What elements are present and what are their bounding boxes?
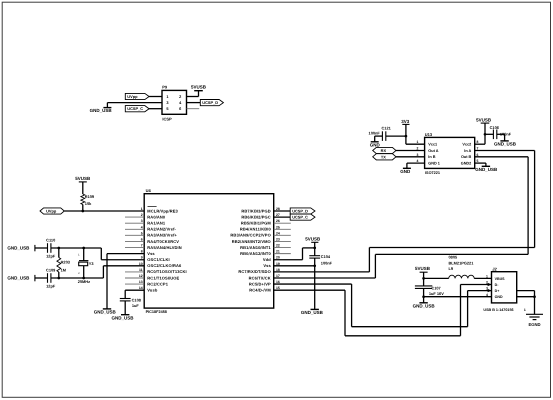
svg-text:C110: C110	[46, 237, 55, 242]
ground GND_USB (C108)	[111, 315, 134, 321]
svg-text:EGND: EGND	[528, 322, 540, 327]
wire P9 pin4	[187, 102, 201, 104]
svg-text:Out A: Out A	[428, 149, 438, 153]
ground GND (U13 pin4)	[400, 168, 411, 174]
svg-text:GND_USB: GND_USB	[413, 303, 436, 308]
svg-text:20MHz: 20MHz	[78, 279, 90, 284]
node VBUS junction	[422, 277, 425, 280]
svg-text:RC1/T1OSI/UOE: RC1/T1OSI/UOE	[147, 275, 179, 280]
node shield junction	[533, 295, 536, 298]
svg-text:UVpp: UVpp	[46, 208, 57, 213]
svg-text:GND: GND	[370, 142, 381, 147]
svg-text:USB B 1-1470156: USB B 1-1470156	[483, 308, 513, 312]
power 5VUSB (MCLR pull-up)	[75, 176, 91, 193]
svg-text:R109: R109	[85, 194, 95, 199]
wire U4 pin14 Vusb	[125, 289, 144, 291]
svg-text:TX: TX	[381, 154, 386, 159]
svg-text:1: 1	[141, 207, 143, 211]
wire U13 pin8	[475, 143, 485, 145]
svg-text:RC5/D+/VP: RC5/D+/VP	[249, 281, 271, 286]
svg-text:Out B: Out B	[461, 155, 472, 159]
wire U4 pin19 Vss	[274, 265, 315, 267]
connector J2 USB B	[483, 267, 516, 312]
svg-text:5VUSB: 5VUSB	[75, 176, 91, 181]
svg-text:RA5/AN4/HLVDIN: RA5/AN4/HLVDIN	[147, 245, 182, 250]
wire U4 pin28	[274, 210, 291, 212]
svg-text:1uF 16V: 1uF 16V	[429, 291, 444, 296]
ground GND_USB (U4 Vss)	[94, 309, 117, 315]
svg-text:Vss: Vss	[147, 251, 155, 256]
power 5VUSB (ICSP pin2)	[191, 85, 207, 97]
ground GND_USB (ICSP pin3)	[90, 103, 113, 114]
svg-text:RX: RX	[381, 148, 387, 153]
net tag TX	[373, 154, 396, 160]
wire U4 pin24 stub	[274, 234, 291, 236]
wire U4 pin12 stub	[125, 277, 144, 279]
wire crystal top rail	[51, 247, 102, 249]
net tag UVpp (ICSP)	[125, 93, 149, 99]
svg-text:GND 1: GND 1	[428, 162, 440, 166]
svg-text:UCSP_D: UCSP_D	[292, 208, 308, 213]
node 3V3 junction	[405, 135, 408, 138]
ground GND (C121)	[370, 136, 381, 147]
svg-text:C108: C108	[132, 297, 142, 302]
svg-text:21: 21	[276, 250, 280, 254]
svg-text:Y3: Y3	[89, 261, 95, 266]
svg-text:Vcc1: Vcc1	[428, 143, 437, 147]
wire U13 pin5	[475, 162, 486, 164]
capacitor C104 100nF	[309, 248, 332, 310]
wire U13 pin1	[406, 143, 425, 145]
svg-text:5: 5	[141, 231, 143, 235]
svg-text:2: 2	[141, 213, 143, 217]
svg-text:C121: C121	[382, 126, 392, 131]
power 3V3 (U13)	[401, 119, 410, 144]
svg-text:P9: P9	[162, 85, 168, 90]
svg-text:5VUSB: 5VUSB	[415, 266, 431, 271]
svg-text:U13: U13	[425, 132, 433, 137]
ground GND_USB (C106)	[494, 134, 517, 146]
svg-text:RA2/AN2/Vref-: RA2/AN2/Vref-	[147, 227, 176, 232]
svg-text:C106: C106	[490, 125, 500, 130]
capacitor C106 100nF	[485, 125, 512, 139]
svg-text:100nF: 100nF	[369, 131, 381, 136]
wire P9 pin2	[187, 96, 199, 98]
op-amp U13 ISO7221 body	[417, 132, 479, 175]
svg-text:RB7/KBI3/PGD: RB7/KBI3/PGD	[241, 208, 270, 213]
svg-text:RA0/AN0: RA0/AN0	[147, 214, 166, 219]
svg-text:OSC1/CLKI: OSC1/CLKI	[147, 257, 169, 262]
svg-text:RA4/T0CKI/RCV: RA4/T0CKI/RCV	[147, 239, 179, 244]
wire U13 pin7 to RC7	[475, 150, 535, 152]
svg-text:GND_USB: GND_USB	[475, 167, 498, 172]
svg-text:OSC2/CLKO/RA6: OSC2/CLKO/RA6	[147, 263, 182, 268]
wire U13 pin4	[407, 162, 425, 164]
svg-text:Vusb: Vusb	[147, 287, 158, 292]
resistor R203 1M	[57, 248, 71, 278]
svg-text:5VUSB: 5VUSB	[305, 237, 321, 242]
svg-text:GND: GND	[400, 169, 411, 174]
svg-text:GND2: GND2	[461, 162, 472, 166]
node Vdd junction	[313, 247, 316, 250]
svg-text:23: 23	[276, 237, 280, 241]
net tag UCSP_D (U4)	[290, 208, 315, 214]
wire U4 pin2 stub	[125, 216, 144, 218]
wire crystal bottom rail	[51, 277, 104, 279]
svg-text:5VUSB: 5VUSB	[476, 118, 492, 123]
ground GND_USB (U13 pin5)	[475, 166, 498, 172]
svg-text:C107: C107	[431, 285, 440, 290]
svg-text:GND_USB: GND_USB	[7, 276, 30, 281]
wire U4 pin11 stub	[125, 271, 144, 273]
svg-text:C109: C109	[46, 267, 56, 272]
svg-text:100nF: 100nF	[321, 260, 333, 265]
svg-text:4: 4	[141, 225, 143, 229]
svg-text:ISO7221: ISO7221	[425, 171, 440, 175]
svg-text:ICSP: ICSP	[162, 117, 172, 122]
svg-text:GND_USB: GND_USB	[494, 142, 517, 147]
svg-text:GND: GND	[495, 295, 503, 299]
net tag UCSP_C (U4)	[290, 214, 315, 220]
svg-text:RC4/D-/VM: RC4/D-/VM	[249, 287, 271, 292]
wire P9 pin6 stub	[187, 108, 200, 110]
svg-text:Vcc2: Vcc2	[462, 143, 471, 147]
svg-text:GND_USB: GND_USB	[301, 310, 324, 315]
svg-text:U4: U4	[146, 188, 152, 193]
wire VBUS to L9	[424, 277, 449, 279]
wire D- route	[274, 289, 345, 291]
svg-text:UVpp: UVpp	[127, 94, 138, 99]
svg-text:1M: 1M	[61, 268, 66, 273]
svg-text:12: 12	[139, 274, 143, 278]
svg-text:J2: J2	[492, 267, 497, 272]
svg-text:BLM21PG221: BLM21PG221	[449, 260, 475, 265]
svg-text:RC6/TX/CK: RC6/TX/CK	[249, 275, 271, 280]
power 5VUSB (USB)	[415, 266, 431, 278]
svg-text:1: 1	[486, 275, 488, 279]
svg-text:0805: 0805	[449, 255, 458, 260]
wire U4 pin23 stub	[274, 240, 291, 242]
svg-text:MCLR/Vpp/RE3: MCLR/Vpp/RE3	[147, 208, 178, 213]
svg-text:1uF: 1uF	[132, 303, 140, 308]
power 5VUSB (Vdd)	[305, 237, 321, 248]
svg-text:Vdd: Vdd	[263, 257, 271, 262]
svg-text:12pF: 12pF	[46, 283, 56, 288]
svg-text:RA1/AN1: RA1/AN1	[147, 220, 166, 225]
svg-text:In A: In A	[464, 149, 471, 153]
svg-text:3V3: 3V3	[401, 119, 410, 124]
wire OSC1 jog	[100, 248, 102, 260]
capacitor C108 1uF	[120, 297, 142, 314]
op-amp U4 PIC18F2458 body	[144, 188, 274, 314]
U4 pin names and numbers	[139, 207, 280, 293]
svg-text:PIC18F2458: PIC18F2458	[146, 310, 167, 314]
svg-text:13: 13	[139, 280, 143, 284]
wire P9 pin5	[149, 108, 162, 110]
capacitor C109 12pF	[35, 267, 56, 288]
capacitor C110 12pF	[35, 237, 56, 258]
wire R109 to pin1	[82, 206, 84, 211]
wire U4 pin21 stub	[274, 253, 291, 255]
svg-text:R203: R203	[61, 259, 71, 264]
svg-text:26: 26	[276, 219, 280, 223]
wire J2 shield	[517, 290, 535, 292]
ground GND_USB (C104)	[301, 309, 324, 315]
svg-text:3: 3	[141, 219, 143, 223]
svg-text:UCSP_C: UCSP_C	[127, 106, 143, 111]
wire OSC2 jog	[102, 266, 104, 278]
svg-text:25: 25	[276, 225, 280, 229]
wire GND to J2 pin4	[424, 296, 492, 298]
svg-text:GND_USB: GND_USB	[111, 315, 134, 320]
svg-text:RB6/KBI2/PGC: RB6/KBI2/PGC	[241, 214, 270, 219]
capacitor C121 100nF	[369, 126, 406, 141]
ground GND_USB (C107)	[413, 303, 436, 309]
svg-text:RB1/AN10/INT1: RB1/AN10/INT1	[240, 245, 271, 250]
wire U13 pin6 to RC6	[475, 156, 528, 158]
wire P9 pin3 to GND	[107, 102, 162, 104]
svg-text:Vss: Vss	[263, 263, 271, 268]
svg-text:100nF: 100nF	[500, 131, 512, 136]
inductor L9 BLM21PG221	[449, 255, 475, 279]
connector P9 (ICSP header)	[162, 85, 187, 122]
svg-text:D+: D+	[495, 289, 500, 293]
svg-text:22: 22	[276, 244, 280, 248]
net tag UVpp (MCLR)	[40, 208, 64, 214]
capacitor C107 1uF 16V	[415, 278, 444, 302]
svg-text:RB2/AN8/INT2/VMO: RB2/AN8/INT2/VMO	[232, 239, 271, 244]
svg-text:RB5/KBI1/PGM: RB5/KBI1/PGM	[241, 220, 271, 225]
svg-text:GND_USB: GND_USB	[7, 246, 30, 251]
wire U4 pin3 stub	[125, 222, 144, 224]
wire U4 pin5 stub	[125, 234, 144, 236]
svg-text:GND_USB: GND_USB	[94, 310, 117, 315]
node Vcc2 junction	[484, 133, 487, 136]
svg-text:RC7/RX/DT/SDO: RC7/RX/DT/SDO	[238, 269, 270, 274]
wire D+ route	[274, 283, 352, 285]
svg-text:6: 6	[141, 237, 143, 241]
wire U4 pin13 stub	[125, 283, 144, 285]
wire U4 pin20 Vdd	[274, 259, 303, 261]
svg-text:UCSP_C: UCSP_C	[292, 215, 308, 220]
svg-text:11: 11	[139, 268, 143, 272]
wire U4 pin8 Vss	[107, 253, 144, 255]
svg-text:GND_USB: GND_USB	[90, 108, 113, 113]
svg-text:C104: C104	[321, 254, 331, 259]
svg-text:RA3/AN3/Vref+: RA3/AN3/Vref+	[147, 233, 177, 238]
wire L9 to VBUS pin	[474, 277, 491, 279]
svg-text:10k: 10k	[85, 201, 92, 206]
wire U4 pin7 stub	[125, 247, 144, 249]
svg-text:12pF: 12pF	[46, 253, 56, 258]
svg-text:24: 24	[276, 231, 280, 235]
svg-text:RC2/CCP1: RC2/CCP1	[147, 281, 168, 286]
wire U4 pin25 stub	[274, 228, 291, 230]
crystal Y3 20MHz	[78, 248, 95, 284]
wire U4 pin22 stub	[274, 247, 291, 249]
ground EGND earth	[526, 314, 543, 327]
wire U4 pin6 stub	[125, 240, 144, 242]
svg-text:RC0/T1OSO/T13CKI: RC0/T1OSO/T13CKI	[147, 269, 186, 274]
svg-text:VBUS: VBUS	[495, 277, 506, 281]
wire MCLR	[64, 210, 144, 212]
wire U13 pin2	[396, 150, 425, 152]
svg-text:7: 7	[141, 244, 143, 248]
svg-text:1: 1	[524, 308, 526, 312]
svg-text:RB0/AN12/INT0: RB0/AN12/INT0	[240, 251, 271, 256]
net tag UCSP_C (ICSP)	[125, 106, 149, 112]
svg-text:5VUSB: 5VUSB	[191, 85, 207, 90]
net tag RX	[373, 147, 396, 153]
node Vss junction	[313, 264, 316, 267]
node rail junctions	[57, 247, 60, 250]
wire U4 pin4 stub	[125, 228, 144, 230]
net tag UCSP_D (ICSP out)	[200, 100, 223, 106]
svg-text:UCSP_D: UCSP_D	[202, 100, 218, 105]
wire U4 pin26 stub	[274, 222, 291, 224]
node UVpp junction	[81, 210, 84, 213]
node GND junction (C107)	[422, 295, 425, 298]
wire U4 pin27	[274, 216, 291, 218]
svg-text:RB4/AN11/KBI0: RB4/AN11/KBI0	[240, 227, 272, 232]
wire U13 pin3	[396, 156, 425, 158]
resistor R109 10k	[81, 193, 95, 207]
svg-text:RB3/AN9/CCP2/VPO: RB3/AN9/CCP2/VPO	[230, 233, 270, 238]
svg-text:In B: In B	[428, 155, 435, 159]
wire P9 pin1	[149, 96, 162, 98]
power 5VUSB (U13 Vcc2)	[476, 118, 492, 145]
